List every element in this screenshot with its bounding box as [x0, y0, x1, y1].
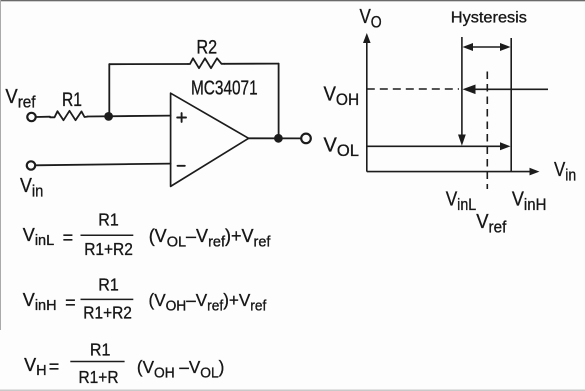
VinL vertical line	[461, 37, 463, 139]
scan border left	[0, 0, 1, 330]
svg-text:(VOH–Vref)+Vref: (VOH–Vref)+Vref	[149, 290, 267, 314]
svg-text:R2: R2	[197, 36, 218, 58]
svg-text:R1+R2: R1+R2	[83, 303, 132, 323]
svg-text:R1: R1	[62, 89, 82, 111]
svg-text:(VOH –VOL): (VOH –VOL)	[137, 357, 224, 381]
svg-text:VOL: VOL	[324, 134, 359, 160]
wire Vin to op-amp -input	[35, 164, 170, 166]
y-axis arrowhead	[363, 33, 371, 43]
equation 3: VH	[24, 340, 224, 388]
wire feedback right vertical	[278, 64, 280, 139]
svg-text:=: =	[63, 228, 74, 248]
wire op-amp output	[249, 137, 301, 139]
svg-text:Vref: Vref	[5, 85, 36, 112]
node output junction	[274, 134, 283, 143]
hysteresis double-arrow shaft	[467, 46, 506, 48]
svg-text:=: =	[65, 293, 76, 313]
hysteresis arrowhead right	[500, 43, 511, 51]
VOH arrowhead (left pointing)	[463, 85, 476, 95]
hysteresis arrowhead left	[463, 43, 474, 51]
scan border bottom	[0, 390, 585, 391]
wire Vref to R1	[36, 116, 50, 118]
graph y-axis	[366, 40, 368, 172]
svg-text:MC34071: MC34071	[191, 76, 258, 99]
scan border top	[0, 0, 585, 1]
svg-text:Vin: Vin	[554, 157, 576, 184]
svg-text:VO: VO	[360, 4, 382, 31]
x-axis arrowhead	[530, 168, 540, 176]
op-amp + input symbol	[177, 113, 186, 166]
VinH vertical line	[510, 38, 512, 172]
op-amp U1 MC34071	[171, 93, 249, 186]
svg-text:(VOL–Vref)+Vref: (VOL–Vref)+Vref	[149, 226, 272, 251]
wire feedback top left	[109, 63, 188, 65]
svg-text:R1: R1	[98, 210, 118, 230]
graph x-axis	[367, 171, 532, 173]
op-amp - input symbol	[178, 165, 185, 167]
svg-text:VinL: VinL	[23, 225, 54, 249]
terminal Vref	[27, 113, 35, 121]
svg-text:Vref: Vref	[476, 210, 507, 237]
node junction (+ input / feedback)	[104, 112, 113, 121]
svg-text:R1+R2: R1+R2	[84, 239, 133, 259]
VOH solid segment right	[474, 88, 548, 90]
svg-text:R1+R: R1+R	[79, 367, 119, 387]
svg-text:=: =	[49, 357, 60, 377]
svg-text:VH: VH	[24, 355, 46, 379]
terminal output	[301, 134, 311, 144]
svg-text:R1: R1	[98, 275, 118, 295]
svg-text:VOH: VOH	[324, 83, 360, 109]
Vref dashed vertical	[486, 72, 488, 190]
svg-text:Hysteresis: Hysteresis	[451, 9, 527, 27]
resistor R1	[50, 111, 88, 120]
svg-text:VinL: VinL	[446, 188, 477, 214]
wire feedback top right	[225, 63, 279, 65]
wire feedback left vertical	[108, 64, 110, 116]
VOL line	[367, 145, 503, 147]
resistor R2	[188, 58, 225, 68]
VinL down arrowhead	[458, 135, 466, 146]
VOL arrowhead (right pointing)	[500, 142, 511, 150]
svg-text:Vin: Vin	[20, 175, 43, 201]
svg-text:VinH: VinH	[23, 290, 57, 314]
svg-text:R1: R1	[90, 340, 110, 360]
svg-text:VinH: VinH	[512, 189, 546, 215]
wire R1 to op-amp +input	[88, 115, 171, 118]
equation 1: VinL	[23, 210, 272, 259]
VOH dashed segment	[367, 88, 459, 90]
equation 2: VinH	[23, 275, 267, 323]
terminal Vin	[27, 161, 35, 169]
